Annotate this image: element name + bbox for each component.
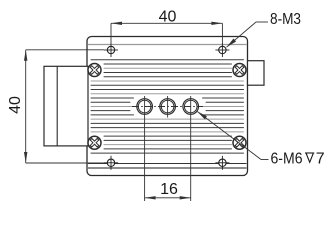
screw bottom-left: [87, 136, 101, 150]
label 6-M6 depth 7 leader: [197, 111, 261, 159]
left protrusion block: [44, 66, 88, 146]
M3 hole bottom-right: [215, 156, 229, 170]
label 6-M6 depth 7 leader arrow: [197, 111, 207, 119]
dimension 16 bottom: dimension line: [145, 197, 191, 199]
right side tab: [248, 61, 265, 85]
bottom seam line: [88, 163, 247, 165]
label 8-M3 leader: [227, 22, 257, 47]
svg-text:40: 40: [159, 9, 177, 26]
svg-text:6-M6: 6-M6: [271, 150, 303, 167]
M3 hole bottom-left: [104, 156, 118, 170]
dimension 40 left: dimension line: [25, 50, 27, 163]
dimension 16 bottom: extension lines: [144, 96, 146, 201]
M6 hole 2: [160, 96, 176, 118]
screw top-right: [232, 63, 246, 77]
depth symbol: [305, 153, 314, 162]
dimension 40 top: dimension line: [111, 22, 222, 24]
svg-text:7: 7: [316, 150, 325, 167]
dimension 40 left: bottom arrow: [24, 152, 27, 163]
left protrusion inner edge: [56, 66, 58, 146]
bottom cap shading line: [88, 167, 247, 169]
svg-text:8-M3: 8-M3: [270, 11, 301, 28]
dimension 40 top: right arrow: [211, 22, 222, 25]
screw top-left: [87, 63, 101, 77]
M3 hole top-right: [215, 43, 229, 57]
label 8-M3 leader arrow: [227, 39, 237, 48]
dimension 16 bottom: left arrow: [145, 196, 156, 199]
M6 hole 1: [137, 99, 153, 115]
dimension 40 top: left arrow: [111, 22, 122, 25]
top cap shading line: [88, 44, 247, 46]
M6 hole centerline horizontal: [132, 106, 203, 108]
screw bottom-right: [232, 136, 246, 150]
dimension 16 bottom: right arrow: [180, 196, 191, 199]
body outline: [87, 37, 248, 176]
heatsink fins: [91, 60, 244, 153]
svg-text:40: 40: [7, 96, 24, 114]
M6 hole 3: [183, 99, 199, 115]
dimension 40 top: extension lines: [110, 23, 112, 44]
dimension 40 left: extension lines: [26, 49, 104, 51]
svg-text:16: 16: [160, 181, 178, 198]
M3 hole top-left: [104, 43, 118, 57]
dimension 40 left: top arrow: [24, 50, 27, 61]
